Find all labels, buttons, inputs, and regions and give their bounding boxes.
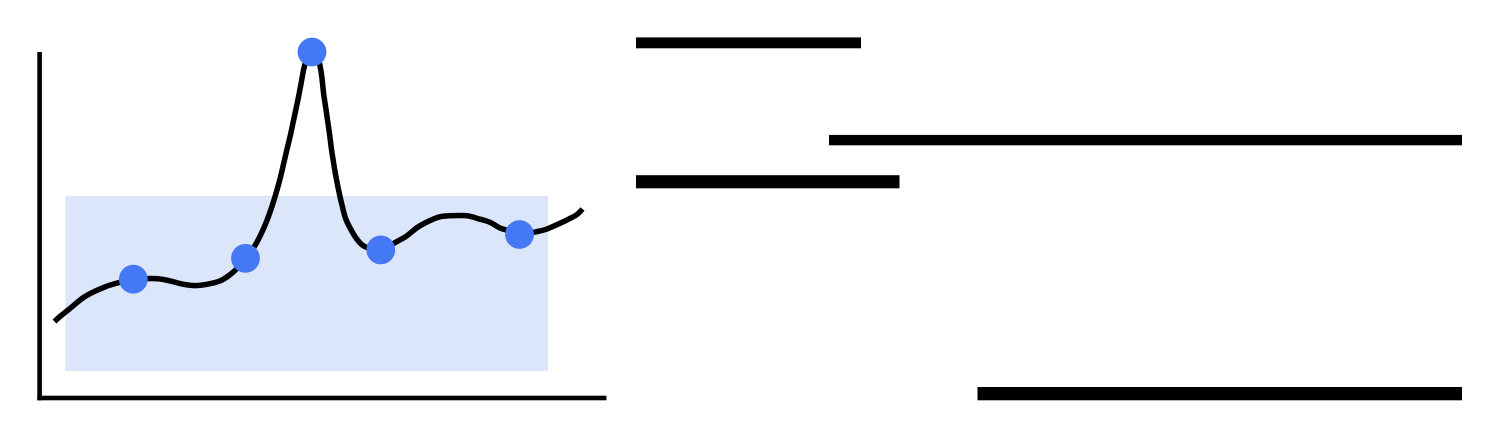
dot 5	[505, 220, 534, 249]
band (light blue highlight rectangle)	[65, 196, 548, 371]
dot 2	[231, 244, 260, 273]
y-axis	[37, 52, 42, 400]
curve	[55, 53, 583, 322]
x-axis	[37, 396, 606, 401]
dot 4	[366, 236, 395, 265]
dot 3 (peak)	[298, 38, 327, 67]
bar 3	[636, 175, 900, 188]
bar 2	[829, 135, 1462, 145]
bar 1	[636, 37, 861, 48]
bar 4	[978, 387, 1463, 400]
dot 1	[119, 265, 148, 294]
